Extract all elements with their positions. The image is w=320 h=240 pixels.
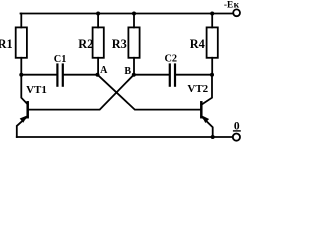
resistor R1 [16,27,27,57]
svg-text:C2: C2 [165,53,178,64]
wire R2 bottom lead [97,58,99,75]
svg-text:VT2: VT2 [187,83,208,95]
transistor VT1 emitter [17,116,28,137]
wire R1 top lead [20,14,22,28]
transistor VT2 base bar [200,102,203,117]
wire R1 bottom lead [20,58,22,75]
svg-text:-Eк: -Eк [224,1,240,11]
transistor VT1 base bar [26,102,29,117]
terminal 0 circle [233,134,240,141]
svg-text:VT1: VT1 [26,84,47,96]
wire R3 top lead [133,14,135,28]
label 0 underline [234,130,241,132]
wire R3 bottom lead [133,58,135,75]
svg-text:R2: R2 [78,37,93,51]
node R4-C2 junction [210,73,214,77]
node rail-R4 junction [210,12,214,16]
svg-text:0: 0 [234,120,240,132]
wire VT1 collector [21,75,27,105]
svg-text:R3: R3 [112,37,127,51]
svg-text:B: B [124,66,131,77]
svg-text:A: A [100,65,108,76]
svg-text:C1: C1 [54,54,67,65]
svg-text:R1: R1 [0,37,13,51]
transistor VT1 emitter arrow [20,115,28,122]
transistor VT2 emitter [201,116,212,137]
node A junction [96,73,100,77]
node rail-R2 junction [96,12,100,16]
wire R4 bottom lead [211,58,213,75]
resistor R4 [207,27,218,57]
wire top rail [21,13,234,15]
resistor R2 [93,27,104,57]
wire R1 node to C1 [21,74,56,76]
terminal -Ek circle [233,9,240,16]
node R1-C1 junction [19,73,23,77]
node rail-R3 junction [132,12,136,16]
wire node A to VT2 base (cross coupling) [98,75,202,110]
svg-text:R4: R4 [190,37,205,51]
wire C2 to R4 node [176,74,212,76]
capacitor C2 [170,65,175,86]
node B junction [132,73,136,77]
transistor VT2 emitter arrow [201,115,209,123]
wire node B to VT1 base (cross coupling) [28,75,134,110]
resistor R3 [128,27,139,57]
wire R4 top lead [211,14,213,28]
wire node B to C2 [134,74,169,76]
wire VT2 collector [201,75,212,105]
wire R2 top lead [97,14,99,28]
node emitter VT2 - rail junction [211,135,215,139]
capacitor C1 [57,65,62,86]
wire C1 to node A [64,74,98,76]
wire bottom rail [17,136,233,138]
